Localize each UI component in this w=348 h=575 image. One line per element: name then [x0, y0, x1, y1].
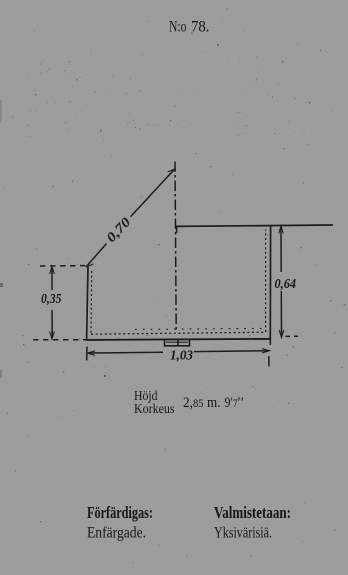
- dotted inner outline: right: [265, 230, 267, 333]
- dimension line 0,64 vertical lower segment: [280, 291, 282, 337]
- arrowhead left of 1,03: [88, 351, 96, 356]
- pennant outline: bottom edge: [87, 339, 271, 340]
- svg-text:Förfärdigas:: Förfärdigas:: [87, 503, 153, 522]
- svg-text:Yksivärisiä.: Yksivärisiä.: [214, 525, 272, 542]
- svg-text:0,35: 0,35: [41, 292, 62, 307]
- arrowhead down of 0,35: [50, 332, 55, 340]
- svg-text:Valmistetaan:: Valmistetaan:: [214, 503, 291, 522]
- arrowhead lower-left of 0,70: [86, 261, 94, 267]
- dimension line 0,64 vertical upper segment: [280, 227, 282, 272]
- extension tick right of 1,03: [269, 339, 271, 345]
- dimension line 0,70 diagonal upper segment: [131, 170, 175, 217]
- wire: dashed extension line top of 0,35: [40, 265, 88, 267]
- svg-text:Korkeus: Korkeus: [134, 402, 175, 417]
- tick at left end of top edge: [176, 226, 178, 234]
- dotted inner outline: left: [90, 271, 93, 334]
- wire: dashed extension line bottom of 0,35: [33, 339, 87, 341]
- pennant outline: right edge: [269, 226, 271, 339]
- svg-text:Enfärgade.: Enfärgade.: [87, 525, 146, 542]
- dotted inner outline: bottom: [91, 332, 265, 334]
- centre line dash-dot: [175, 162, 176, 331]
- pennant outline: left edge: [87, 266, 88, 341]
- sleeve tab below bottom edge centre: [165, 340, 190, 346]
- dimension line 0,70 diagonal lower segment: [87, 244, 107, 266]
- dimension line 1,03 right segment: [194, 350, 269, 353]
- dotted inner outline: bottom sparse second row: [135, 328, 262, 329]
- arrowhead right of 1,03: [262, 349, 270, 354]
- svg-text:N:o: N:o: [169, 19, 187, 36]
- svg-text:2,85m.9′7′′: 2,85m.9′7′′: [183, 395, 244, 411]
- svg-text:78.: 78.: [191, 19, 210, 36]
- arrowhead upper-right of 0,70: [168, 169, 175, 175]
- extension tick right lower of 1,03: [268, 356, 270, 367]
- dimension line 0,35 vertical lower segment: [51, 310, 53, 338]
- svg-text:0,64: 0,64: [275, 277, 297, 292]
- arrowhead down of 0,64: [279, 330, 284, 338]
- title "N:o 78.": [169, 19, 210, 36]
- shading inside sleeve tab: [166, 341, 188, 343]
- svg-text:1,03: 1,03: [170, 349, 193, 364]
- wire: small dashes right of 0,64 bottom arrow: [286, 335, 299, 337]
- pennant outline: top edge extended to right: [177, 225, 333, 226]
- dimension line 0,35 vertical upper segment: [51, 268, 53, 290]
- extension tick left of 1,03: [86, 347, 88, 361]
- arrowhead up of 0,64: [279, 226, 284, 234]
- arrowhead up of 0,35: [50, 267, 55, 275]
- dimension line 1,03 left segment: [89, 351, 164, 354]
